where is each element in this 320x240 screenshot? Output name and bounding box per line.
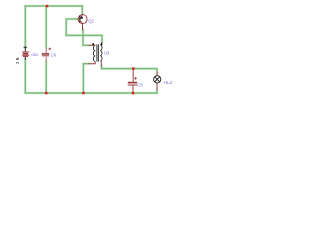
svg-text:Q2: Q2 <box>88 18 94 23</box>
svg-text:2 В: 2 В <box>15 57 20 64</box>
svg-text:HL3: HL3 <box>164 80 173 85</box>
svg-text:C6: C6 <box>51 52 57 57</box>
svg-text:C8: C8 <box>137 82 143 87</box>
svg-text:GB3: GB3 <box>31 53 38 57</box>
svg-text:U3: U3 <box>104 51 110 56</box>
